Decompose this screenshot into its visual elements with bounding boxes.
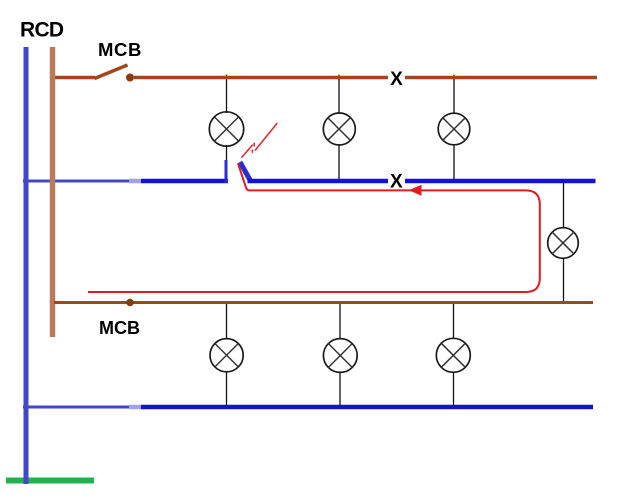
- wire: bottom neutral line, faded overlap segment: [129, 405, 141, 410]
- wire: lamp L1 to neutral: [226, 145, 228, 179]
- earth bar (green): [6, 478, 94, 484]
- wire: bottom live line (brown): [54, 301, 593, 304]
- wire: bottom neutral line, thin indigo left segment: [23, 406, 134, 409]
- broken neutral stub (right, leaning blade): [240, 162, 251, 181]
- lamp L5: [210, 339, 243, 372]
- svg-text:MCB: MCB: [98, 39, 142, 60]
- lamp L1: [209, 112, 243, 146]
- RCD neutral bus bar (blue vertical): [24, 47, 29, 484]
- wire: lamp L5 to neutral: [226, 372, 228, 406]
- wire: lamp L2 to neutral: [338, 145, 340, 179]
- wire: top live line, dot to break X: [134, 76, 388, 80]
- svg-text:X: X: [390, 69, 403, 90]
- lightning fault symbol: [242, 123, 278, 158]
- svg-text:RCD: RCD: [20, 18, 64, 41]
- MCB closed contact dot (bottom): [126, 299, 134, 307]
- wire: drop to lamp L6: [339, 304, 341, 339]
- wire: lamp L4 to bottom live: [563, 258, 565, 301]
- wire: top live feed from bus to MCB switch: [54, 76, 95, 80]
- fault current arrow (pointing left): [409, 185, 422, 196]
- lamp L2: [323, 113, 355, 145]
- broken neutral stub (left, raised): [225, 160, 228, 183]
- wire: mid neutral line to break: [141, 179, 228, 184]
- wire: lamp L7 to neutral: [453, 372, 455, 405]
- svg-text:MCB: MCB: [99, 318, 140, 338]
- MCB switch contact dot (top): [126, 74, 134, 82]
- MCB open switch blade (top): [95, 65, 128, 79]
- wire: mid neutral line, faded overlap segment: [129, 179, 141, 184]
- wire: drop to lamp L2: [338, 79, 340, 113]
- lamp L6: [323, 339, 357, 373]
- wire: lamp L3 to neutral: [453, 145, 455, 179]
- lamp L3: [438, 113, 470, 145]
- wire: drop to lamp L1: [226, 79, 228, 113]
- wire: bottom neutral line (dark blue): [141, 405, 593, 410]
- wire: mid neutral line, thin indigo left segment: [23, 180, 134, 183]
- wire: mid neutral line, break to X: [248, 179, 389, 184]
- wire: drop to lamp L7: [453, 304, 455, 339]
- lamp L7: [436, 338, 470, 372]
- lamp L4: [548, 228, 579, 259]
- wire: top live line after X to right end: [405, 76, 597, 80]
- RCD live bus bar (brown vertical): [50, 47, 56, 337]
- junction ticks on top live line: [227, 75, 455, 77]
- fault current path (red loop): [88, 163, 540, 292]
- wire: mid neutral line after X to right end: [405, 179, 596, 184]
- wire: neutral drop to lamp L4 (right): [563, 183, 565, 227]
- wire: drop to lamp L3: [453, 79, 455, 113]
- wire: lamp L6 to neutral: [339, 372, 341, 405]
- wire: drop to lamp L5: [226, 304, 228, 339]
